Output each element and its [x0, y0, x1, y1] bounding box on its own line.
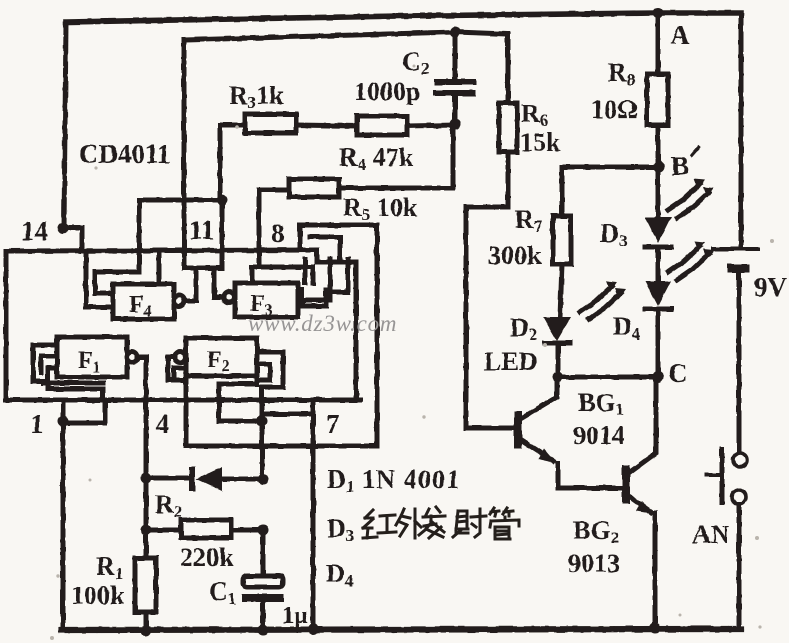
resistor R2	[181, 520, 231, 538]
wire R6 top lead	[506, 34, 511, 103]
wire F2 right inner loop	[257, 364, 270, 380]
svg-text:LED: LED	[484, 347, 537, 376]
wire into box left of 11	[137, 200, 142, 272]
node pin7 ground	[308, 624, 319, 635]
wire F4 input bracket A	[86, 251, 113, 307]
char 红	[363, 510, 396, 538]
svg-text:R4 47k: R4 47k	[339, 143, 414, 174]
wire F4 top input drop	[157, 251, 162, 284]
node D1 left	[141, 473, 152, 484]
gate F3	[235, 283, 298, 317]
wire R1 bottom lead	[144, 612, 149, 630]
wire D1 node to R1	[144, 478, 149, 558]
node pin1	[58, 416, 69, 427]
node C1 ground	[258, 625, 269, 636]
svg-text:15k: 15k	[520, 128, 561, 157]
svg-text:R5 10k: R5 10k	[343, 193, 418, 224]
wire F1 output drop	[137, 357, 146, 478]
node R3 junction	[217, 195, 228, 206]
D2 emission arrows	[580, 286, 612, 312]
svg-text:B: B	[671, 151, 689, 181]
wire R5 left lead	[259, 190, 289, 267]
wire jog pin8 region	[298, 225, 303, 250]
wire B branch horizontal	[562, 165, 659, 170]
wire C2 bottom lead	[453, 94, 458, 124]
svg-text:R31k: R31k	[229, 81, 284, 112]
wire R6 to BG1 base	[466, 152, 514, 428]
resistor R5	[289, 179, 339, 197]
wire gate outputs bus	[184, 266, 222, 271]
wire C1 bottom lead	[261, 602, 266, 630]
capacitor C2	[437, 79, 473, 85]
battery 9V	[713, 247, 758, 251]
wire outer loop top	[300, 223, 377, 228]
resistor R6	[499, 103, 517, 152]
gate F1	[57, 337, 127, 377]
node pin14 junction	[58, 223, 69, 234]
wire left rail (pin 14 supply)	[64, 22, 66, 228]
wire F4 input bracket B	[95, 272, 139, 293]
wire F1 left bracket outer	[33, 345, 57, 389]
wire pin1 stub	[61, 400, 66, 630]
wire pin7 bus	[186, 444, 377, 449]
wire pin 11 vertical	[182, 40, 187, 268]
wire below F1	[48, 389, 103, 400]
resistor R8	[647, 74, 668, 125]
wire F3 upper bracket	[252, 267, 313, 283]
node B	[654, 162, 665, 173]
svg-text:1: 1	[30, 409, 44, 439]
wire pin14 entry to IC	[63, 228, 82, 251]
wire switch to rail	[737, 504, 742, 629]
switch AN	[733, 453, 747, 467]
wire R7 to D2	[560, 264, 562, 317]
wire B to D3	[656, 167, 661, 217]
diode D1	[189, 467, 195, 491]
node A	[653, 8, 664, 19]
svg-text:CD4011: CD4011	[79, 139, 171, 169]
node R2 right	[258, 525, 269, 536]
wire F3 top drop	[303, 259, 308, 283]
wire D1 right lead	[222, 477, 263, 482]
svg-text:9013: 9013	[568, 549, 620, 578]
wire second rail to C2	[184, 32, 508, 40]
wire F2 node drop	[260, 421, 265, 478]
node R4/C2/R5	[450, 119, 461, 130]
wire bottom rail	[62, 629, 741, 630]
capacitor C1	[243, 576, 283, 587]
wire top rail	[66, 13, 741, 22]
wire F2 left lower bracket	[174, 368, 186, 379]
wire outer loop right vertical	[375, 225, 380, 446]
char 外	[396, 509, 421, 538]
svg-text:11: 11	[189, 215, 215, 245]
IC CD4011 box	[6, 250, 317, 400]
led D4	[645, 281, 671, 306]
D4 emission arrows	[668, 246, 700, 272]
char 管	[490, 508, 519, 539]
wire D2 cathode lead	[556, 345, 561, 377]
svg-text:10Ω: 10Ω	[591, 95, 638, 124]
transistor BG2	[622, 465, 630, 504]
wire F2 lower loop	[219, 384, 262, 421]
svg-text:7: 7	[326, 409, 340, 439]
wire F2 output drop	[168, 357, 186, 446]
node D2/C-line	[553, 372, 564, 383]
wire battery to switch	[737, 273, 742, 452]
svg-text:9V: 9V	[754, 272, 788, 302]
wire F1 left bracket inner	[48, 368, 57, 381]
wire F3 loop tie	[326, 259, 348, 292]
node D1 right	[258, 474, 269, 485]
wire C2 top lead	[453, 32, 458, 79]
node C2 tap	[450, 27, 461, 38]
wire D3-D4 link	[656, 249, 661, 281]
resistor R1	[135, 558, 156, 612]
svg-text:300k: 300k	[488, 241, 542, 270]
wire F3 right lower loop	[302, 290, 326, 306]
svg-text:1000p: 1000p	[354, 77, 420, 106]
wire D1 left lead	[146, 476, 189, 481]
gate F4	[113, 284, 174, 319]
char 射	[453, 509, 486, 537]
wire inner bus	[310, 237, 340, 262]
wire C1 top lead	[261, 530, 266, 576]
wire F1 left bracket third	[41, 356, 57, 373]
resistor R3	[245, 114, 296, 133]
wire D4 to C	[656, 311, 661, 377]
svg-text:14: 14	[21, 216, 48, 246]
svg-text:A: A	[670, 20, 690, 50]
svg-text:1μ: 1μ	[282, 603, 308, 629]
wire R8 top lead	[656, 13, 661, 74]
resistor R7	[553, 216, 571, 264]
svg-text:9014: 9014	[573, 421, 625, 450]
transistor BG1	[514, 411, 522, 448]
node R1 ground	[141, 626, 152, 637]
wire R3-R4 link	[296, 125, 357, 126]
wire R4 right lead	[407, 125, 455, 126]
wire F3 output riser	[214, 268, 223, 297]
wire F3 right input	[298, 259, 330, 300]
led D3	[645, 217, 671, 243]
svg-text:C: C	[668, 358, 688, 388]
wire battery top lead	[739, 13, 744, 246]
wire node-11 horizontal	[139, 198, 222, 203]
B prime tick	[692, 147, 699, 155]
wire R3 left lead	[220, 125, 245, 200]
D3 emission arrows	[668, 184, 700, 210]
wire F2 node to pin7 line	[262, 412, 313, 417]
wire into box right of 11	[220, 200, 225, 268]
char 发	[419, 507, 445, 538]
node C	[653, 372, 664, 383]
wire R2 right lead	[231, 528, 263, 533]
wire F4 output riser	[185, 268, 196, 301]
resistor R4	[357, 116, 407, 135]
wire below F1 second	[44, 381, 103, 386]
node BG2 ground	[650, 623, 661, 634]
CJK text 红外发射管 drawn as strokes	[363, 507, 519, 539]
wire F2 right bracket	[257, 352, 283, 421]
svg-text:4: 4	[156, 409, 170, 439]
wire R5 riser to node	[339, 124, 453, 188]
svg-text:100k: 100k	[71, 581, 125, 610]
svg-text:AN: AN	[692, 520, 730, 549]
gate F2	[186, 338, 257, 376]
wire R8 bottom lead	[656, 125, 661, 167]
wire R2 left lead	[146, 528, 181, 533]
wire R7 top lead	[560, 167, 565, 216]
svg-text:www.dz3w.com: www.dz3w.com	[248, 311, 397, 336]
node R2 left	[141, 525, 152, 536]
wire pin7 drop	[311, 401, 316, 629]
wire C line	[558, 375, 658, 380]
svg-text:8: 8	[271, 218, 285, 248]
led D2	[543, 317, 571, 341]
wire pin1 loop	[63, 400, 105, 423]
node below F2	[257, 416, 268, 427]
svg-text:220k: 220k	[180, 543, 234, 572]
